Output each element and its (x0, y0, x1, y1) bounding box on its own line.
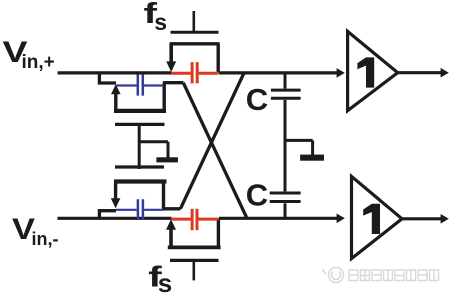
wire: cross-coupling diagonal top-left to bottom rail (183, 83, 247, 219)
capacitor Cp1 (red, top) left lead (171, 72, 191, 75)
wire: branch to right ground (285, 140, 313, 155)
ground (right, between hold caps) (300, 155, 324, 161)
transistor M4 gate terminal (193, 260, 196, 280)
capacitor Cb2 plates (138, 199, 143, 220)
op-amp buffer U1 (top, gain 1) (348, 31, 398, 110)
svg-text:s: s (158, 268, 172, 295)
wire: step from top rail down to blue cap branch (98, 72, 116, 84)
watermark logo (323, 268, 344, 283)
svg-text:C: C (246, 82, 268, 117)
watermark text blocks (349, 270, 439, 281)
capacitor Cb2 right lead (144, 209, 163, 211)
capacitor Cb1 right lead (144, 84, 164, 86)
transistor M2 gate bar (115, 123, 165, 126)
capacitor Cp1 right lead (199, 72, 219, 75)
transistor M2 (top dummy) left terminal arrow up (111, 84, 121, 94)
arrowhead top output (441, 68, 449, 78)
capacitor Cb1 plates (138, 75, 143, 96)
op-amp buffer U2 (bottom, gain 1) (352, 176, 403, 258)
ground (middle, dummy gates) (156, 157, 178, 162)
label Vin,+ (3, 36, 55, 73)
capacitor C (top) plates (271, 90, 301, 98)
transistor M3 left terminal arrow down (114, 182, 117, 202)
capacitor Cp1 plates (192, 62, 197, 83)
transistor M3 right source/drain (162, 182, 165, 209)
wire: hold cap column bottom segment (284, 203, 287, 218)
transistor M1 channel bar (170, 42, 220, 45)
wire: step from bottom rail up to blue cap branch (98, 211, 116, 220)
label fs (top) (144, 0, 168, 35)
capacitor Cb1 (blue, top) left lead (116, 84, 137, 86)
capacitor C (bottom) plates (270, 193, 301, 202)
wire: top blue cap right branch (163, 81, 183, 84)
transistor M1 gate bar (171, 31, 219, 34)
wire: cross-coupling diagonal bottom-left to top rail (180, 73, 244, 209)
arrowhead into bottom buffer (337, 214, 345, 224)
label Vin,- (12, 213, 59, 249)
wire: top output (398, 71, 441, 74)
capacitor Cp2 right lead (199, 218, 219, 221)
wire: top rail from Vin,+ (58, 71, 172, 74)
svg-text:C: C (246, 178, 268, 213)
svg-text:s: s (154, 9, 167, 35)
capacitor Cb2 (blue, bottom) left lead (116, 209, 137, 211)
wire: gate-to-gate vertical between dummy switches (138, 124, 141, 169)
transistor M1 gate terminal (top fs switch) (193, 11, 196, 32)
wire: hold cap column top segment (284, 73, 287, 89)
capacitor Cp2 plates (192, 209, 197, 230)
transistor M1 left source/drain with arrow down (169, 44, 173, 63)
arrowhead into top buffer (337, 68, 345, 78)
transistor M4 channel bar (168, 245, 221, 249)
arrowhead bottom output (441, 214, 449, 224)
wire: top rail right of sampling cap to buffer (219, 71, 339, 74)
wire: bottom rail right of sampling cap to buffer (219, 217, 339, 220)
svg-text:in,+: in,+ (22, 52, 55, 73)
wire: branch to middle ground (139, 142, 168, 158)
transistor M2 right source/drain (162, 83, 165, 112)
wire: hold cap column middle segment (284, 100, 287, 191)
wire: bottom blue cap right branch (163, 207, 180, 210)
svg-text:in,-: in,- (32, 229, 59, 249)
transistor M4 gate bar (170, 259, 219, 262)
wire: bottom output (402, 217, 441, 220)
transistor M4 (bottom fs switch) left source/drain with arrow up (166, 219, 176, 230)
transistor M1 right source/drain (216, 44, 219, 73)
wire: bottom rail from Vin,- (58, 217, 172, 220)
transistor M3 (bottom dummy) gate bar (115, 165, 164, 168)
label fs (bottom) (148, 261, 172, 295)
transistor M3 channel bar (loop top) (114, 179, 167, 183)
transistor M2 channel bar (loop bottom) (114, 109, 166, 113)
capacitor Cp2 (red, bottom) left lead (171, 218, 191, 221)
transistor M4 right source/drain (217, 218, 220, 247)
